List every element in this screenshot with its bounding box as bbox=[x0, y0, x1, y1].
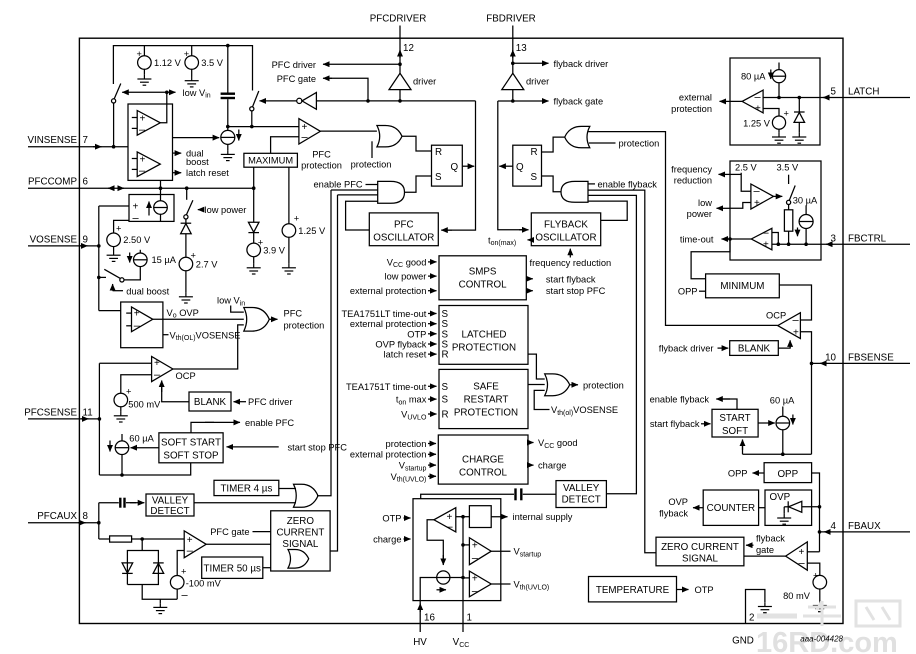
svg-text:CURRENT: CURRENT bbox=[276, 527, 324, 538]
svg-text:–: – bbox=[154, 369, 161, 381]
svg-text:driver: driver bbox=[526, 77, 549, 87]
wire latched out to G7 bbox=[528, 354, 545, 379]
VALLEY DETECT box (right) bbox=[556, 481, 606, 508]
current source I5 (charge) bbox=[437, 571, 450, 584]
svg-text:–: – bbox=[472, 553, 479, 565]
wire comp output to low Vin bbox=[160, 92, 167, 123]
svg-text:1.25 V: 1.25 V bbox=[743, 118, 771, 128]
svg-text:1.12 V: 1.12 V bbox=[154, 58, 182, 68]
svg-text:PFC: PFC bbox=[284, 308, 303, 318]
wire frequency reduction arrow bbox=[569, 249, 571, 258]
zener diode D5 bbox=[798, 98, 800, 113]
svg-text:13: 13 bbox=[516, 43, 527, 54]
svg-text:PFCSENSE: PFCSENSE bbox=[24, 407, 77, 418]
svg-text:Q: Q bbox=[516, 162, 524, 173]
svg-text:TEA1751LT time-out: TEA1751LT time-out bbox=[341, 309, 426, 319]
ground under V5 bbox=[247, 264, 261, 274]
diode D6 (OVP) bbox=[784, 506, 788, 508]
wire driver output row bbox=[399, 90, 401, 101]
wire low power in bbox=[428, 275, 437, 277]
inverter A2 bbox=[297, 98, 302, 103]
ZERO CURRENT SIGNAL box (left) bbox=[271, 511, 330, 571]
svg-text:start flyback: start flyback bbox=[650, 419, 700, 429]
wire OVP flyback out bbox=[693, 507, 703, 509]
svg-text:60 µA: 60 µA bbox=[129, 434, 154, 444]
svg-text:60 µA: 60 µA bbox=[770, 395, 795, 405]
wire G7 out bbox=[570, 384, 578, 386]
svg-text:protection: protection bbox=[301, 160, 342, 170]
svg-text:15 µA: 15 µA bbox=[152, 255, 177, 265]
svg-text:+: + bbox=[134, 309, 140, 320]
switch S1 (VINSENSE) bbox=[114, 84, 121, 99]
wire OVP to COUNTER bbox=[759, 507, 765, 509]
svg-text:frequency: frequency bbox=[671, 165, 712, 175]
node low Vin tap bbox=[165, 91, 169, 95]
current source I4 60uA bbox=[121, 434, 123, 441]
ground under V9 bbox=[772, 133, 786, 143]
top supply rail wire bbox=[113, 46, 252, 91]
svg-text:PROTECTION: PROTECTION bbox=[454, 408, 518, 419]
svg-text:+: + bbox=[116, 224, 121, 234]
FBCTRL block box bbox=[730, 161, 821, 260]
wire FF2 Q out bbox=[499, 165, 513, 167]
wire flyback gate label bbox=[513, 100, 549, 102]
wire flyback driver label bbox=[513, 62, 549, 64]
wire VCC good out bbox=[528, 442, 534, 444]
svg-text:protection: protection bbox=[583, 380, 624, 390]
wire G4 input from valley detect right bbox=[588, 195, 636, 493]
svg-text:latch reset: latch reset bbox=[384, 350, 427, 360]
ground under V2 bbox=[185, 77, 199, 87]
comparator U12 (time-out, points left) bbox=[751, 228, 772, 250]
comparator U3 (PFC protection) bbox=[299, 119, 321, 144]
svg-text:low: low bbox=[698, 198, 712, 208]
svg-text:-100 mV: -100 mV bbox=[186, 578, 222, 588]
wire time-out out bbox=[722, 238, 752, 240]
svg-text:OVP: OVP bbox=[770, 492, 791, 503]
wire start flyback out bbox=[526, 278, 533, 280]
wire OTP out bbox=[677, 589, 689, 591]
wire U7 plus to internal supply box bbox=[456, 516, 470, 518]
wire timer4 to OR6 bbox=[279, 488, 296, 490]
OR glyph inside ZCS left bbox=[288, 550, 309, 569]
watermark bottom right bbox=[757, 601, 900, 626]
svg-text:OPP: OPP bbox=[678, 287, 698, 297]
wire 2.5V stub bbox=[741, 173, 751, 191]
svg-text:flyback driver: flyback driver bbox=[659, 343, 714, 353]
svg-text:FLYBACK: FLYBACK bbox=[544, 219, 588, 230]
wire time-out tap to MINIMUM bbox=[691, 239, 730, 279]
switch S5 (3.5V / 30uA) bbox=[788, 175, 790, 184]
capacitor C1 bbox=[227, 46, 229, 93]
wire OCP to G3 input bbox=[588, 132, 778, 326]
svg-text:frequency reduction: frequency reduction bbox=[530, 258, 612, 268]
svg-text:S: S bbox=[435, 172, 442, 183]
wire frequency reduction out bbox=[730, 173, 741, 175]
svg-text:MINIMUM: MINIMUM bbox=[720, 281, 764, 292]
wire G4 input from ZCS right bbox=[588, 190, 656, 553]
svg-text:LATCH: LATCH bbox=[848, 87, 879, 98]
comparator U10 (latch, points left) bbox=[742, 90, 763, 113]
svg-text:TEMPERATURE: TEMPERATURE bbox=[596, 585, 670, 596]
svg-text:gate: gate bbox=[756, 545, 774, 555]
wire enable PFC stub bbox=[366, 184, 378, 186]
ground GND pin bbox=[758, 602, 772, 612]
svg-text:2.5 V: 2.5 V bbox=[735, 163, 758, 173]
current source I7 30uA bbox=[805, 205, 807, 214]
current source I6 80uA bbox=[778, 63, 780, 70]
comparator U6 (valley/ZCS) bbox=[184, 531, 206, 558]
voltage source V8 -100mV bbox=[170, 576, 184, 590]
svg-text:3: 3 bbox=[831, 233, 837, 244]
wire U1 box to PFCCOMP to error amp box bbox=[160, 180, 162, 200]
svg-text:flyback: flyback bbox=[756, 533, 785, 543]
wire G2 input from ZCS bbox=[338, 194, 378, 196]
wire PFC gate label to ZCS bbox=[253, 531, 271, 533]
svg-text:–: – bbox=[472, 586, 479, 598]
svg-text:+: + bbox=[784, 109, 789, 119]
wire U4 out to OR2 bbox=[153, 318, 244, 320]
wire soft start bottom rail bbox=[99, 463, 190, 475]
svg-text:enable PFC: enable PFC bbox=[245, 418, 294, 428]
svg-text:OCP: OCP bbox=[766, 311, 786, 321]
ground under V1 bbox=[137, 75, 151, 85]
wire U11 out to switch bbox=[774, 195, 783, 197]
svg-text:OTP: OTP bbox=[407, 329, 426, 339]
diode D1 bbox=[185, 219, 187, 223]
capacitor C3 (VCC/valley) bbox=[421, 494, 514, 499]
svg-text:SAFE: SAFE bbox=[473, 382, 499, 393]
svg-text:–: – bbox=[134, 320, 141, 332]
svg-text:SOFT STOP: SOFT STOP bbox=[163, 450, 219, 461]
svg-text:HV: HV bbox=[413, 637, 427, 648]
OPP box bbox=[764, 463, 812, 483]
pin 2 GND wire bbox=[746, 590, 765, 624]
wire G6 out up to G2 bbox=[317, 190, 331, 496]
svg-text:OPP: OPP bbox=[728, 469, 748, 479]
svg-text:BLANK: BLANK bbox=[738, 343, 771, 354]
TEMPERATURE box bbox=[589, 577, 677, 602]
current source I3 15uA bbox=[139, 250, 141, 253]
wire internal supply out bbox=[491, 516, 507, 518]
svg-text:protection: protection bbox=[671, 104, 712, 114]
wire U14 out to ZCS box bbox=[744, 555, 786, 557]
wire minus input to -100mV bbox=[177, 551, 184, 576]
ground under V10 bbox=[813, 601, 827, 611]
wire safe restart out to G7 bbox=[528, 384, 545, 386]
arrow down beside I1 bbox=[238, 130, 240, 141]
supply block box bbox=[413, 499, 501, 601]
svg-text:OSCILLATOR: OSCILLATOR bbox=[373, 232, 434, 243]
pin 9 VOSENSE wire bbox=[28, 245, 99, 247]
OR gate G1 (PFC R) bbox=[377, 125, 402, 146]
svg-text:S: S bbox=[531, 172, 538, 183]
wire comp box output to I1 bbox=[173, 137, 220, 139]
wire 500mV to U5 minus bbox=[121, 375, 152, 393]
wire U13 plus elbow bbox=[800, 332, 811, 455]
wire G3 out to R of FF2 bbox=[542, 137, 565, 152]
svg-text:FBAUX: FBAUX bbox=[848, 521, 881, 532]
wire B1 to U5 bbox=[162, 384, 189, 402]
wire OPP to FBAUX bus bbox=[812, 473, 820, 552]
wire G2 to S of FF1 bbox=[405, 176, 432, 192]
wire PFCAUX vertical bbox=[98, 503, 100, 539]
svg-text:CONTROL: CONTROL bbox=[459, 467, 507, 478]
svg-text:power: power bbox=[687, 209, 712, 219]
driver buffer A1 bbox=[389, 73, 411, 89]
wire bottom node bbox=[142, 585, 177, 600]
svg-text:8: 8 bbox=[83, 511, 89, 522]
svg-text:enable PFC: enable PFC bbox=[314, 180, 363, 190]
svg-text:500 mV: 500 mV bbox=[128, 399, 161, 409]
wire soft start rail bbox=[743, 453, 812, 455]
svg-text:CHARGE: CHARGE bbox=[462, 454, 504, 465]
svg-text:time-out: time-out bbox=[680, 234, 714, 244]
svg-text:FBCTRL: FBCTRL bbox=[848, 233, 887, 244]
capacitor C2 (PFCAUX) bbox=[99, 502, 119, 504]
wire U7 out to charge source bbox=[427, 520, 443, 564]
op-amp U1a bbox=[137, 111, 160, 136]
wire U9 out bbox=[491, 583, 510, 585]
arrow down beside I7 bbox=[797, 228, 799, 237]
svg-text:+: + bbox=[181, 567, 186, 577]
voltage source V5 3.9V bbox=[247, 243, 261, 257]
wire G2 input from PFC OSC bbox=[346, 201, 378, 230]
pin 16 HV wire bbox=[419, 601, 421, 632]
svg-text:+: + bbox=[133, 202, 139, 213]
wire latch reset out bbox=[173, 172, 182, 174]
svg-text:9: 9 bbox=[83, 234, 88, 245]
svg-text:–: – bbox=[447, 521, 454, 533]
pin 6 PFCCOMP wire bbox=[28, 187, 254, 189]
wire U3 out to OR1 bbox=[320, 130, 377, 132]
svg-text:R: R bbox=[442, 410, 449, 421]
svg-text:VALLEY: VALLEY bbox=[563, 483, 600, 494]
MINIMUM box bbox=[706, 274, 780, 298]
VALLEY DETECT box (left) bbox=[146, 494, 194, 516]
arrow down beside I6 bbox=[770, 70, 772, 80]
PFC OSCILLATOR box bbox=[369, 213, 438, 246]
ground under V8 node bbox=[159, 599, 161, 603]
svg-text:Q: Q bbox=[451, 162, 459, 173]
MAXIMUM box bbox=[244, 153, 298, 167]
internal supply square bbox=[469, 506, 491, 528]
resistor R1 bbox=[99, 538, 110, 540]
pin 8 PFCAUX wire bbox=[28, 522, 99, 524]
wire U14 plus to FBAUX bus bbox=[807, 551, 819, 553]
driver buffer A3 bbox=[502, 73, 524, 89]
wire U6 out to ZCS box bbox=[206, 543, 271, 545]
svg-text:start stop PFC: start stop PFC bbox=[288, 442, 348, 452]
wire I5 to VCC rail bbox=[450, 577, 463, 579]
svg-text:+: + bbox=[799, 547, 805, 558]
wire flyback gate label bbox=[746, 544, 754, 546]
flip-flop FF1 (PFC latch) bbox=[432, 145, 463, 186]
ground under V6 bbox=[282, 264, 296, 274]
switch S2 (PFC gate disable) bbox=[253, 91, 259, 107]
wire OTP in bbox=[404, 517, 411, 519]
svg-text:PFC gate: PFC gate bbox=[277, 74, 316, 84]
wire U14 minus to 80mV bbox=[807, 563, 820, 575]
current source I2 in U2 bbox=[154, 201, 168, 215]
svg-text:–: – bbox=[793, 314, 800, 326]
svg-text:3.5 V: 3.5 V bbox=[201, 58, 224, 68]
svg-text:SIGNAL: SIGNAL bbox=[282, 539, 318, 550]
voltage source V9 1.25V bbox=[772, 116, 785, 129]
wire safe restart inputs bbox=[428, 385, 437, 387]
svg-text:low power: low power bbox=[385, 272, 427, 282]
pin 5 LATCH wire bbox=[763, 97, 910, 99]
wire low Vin to OR2 bbox=[231, 306, 244, 313]
SOFT START SOFT STOP box bbox=[159, 433, 223, 463]
wire charge in bbox=[404, 538, 411, 540]
svg-text:TIMER 4 µs: TIMER 4 µs bbox=[220, 483, 272, 494]
arrow up in U2 bbox=[148, 202, 150, 216]
svg-text:VOSENSE: VOSENSE bbox=[30, 234, 78, 245]
svg-text:3.5 V: 3.5 V bbox=[777, 163, 800, 173]
pin 10 FBSENSE wire bbox=[812, 362, 911, 364]
voltage source V6 1.25V bbox=[282, 224, 296, 238]
svg-text:reduction: reduction bbox=[674, 176, 712, 186]
svg-text:protection: protection bbox=[619, 138, 660, 148]
ground under V3 bbox=[107, 251, 121, 261]
voltage source V4 2.7V bbox=[179, 257, 193, 271]
svg-text:ZERO CURRENT: ZERO CURRENT bbox=[661, 542, 739, 553]
diode D3 bbox=[122, 563, 133, 573]
SAFE RESTART PROTECTION box bbox=[439, 369, 528, 428]
wire U5 out to G5 bbox=[173, 325, 244, 369]
wire A3 output row bbox=[512, 90, 514, 101]
pin 11 PFCSENSE wire bbox=[28, 418, 99, 420]
wire ton(max) stub bbox=[528, 239, 532, 241]
svg-text:S: S bbox=[442, 382, 449, 393]
svg-text:11: 11 bbox=[83, 407, 93, 418]
svg-text:VINSENSE: VINSENSE bbox=[27, 135, 77, 146]
AND gate G4 (enable flyback) bbox=[561, 181, 588, 202]
arrow down beside I8 bbox=[792, 415, 794, 425]
svg-text:–: – bbox=[139, 124, 146, 136]
voltage source V2 3.5V bbox=[191, 46, 193, 56]
AND gate G2 (enable PFC) bbox=[378, 181, 405, 203]
svg-text:+: + bbox=[154, 358, 160, 369]
pin 13 FBDRIVER wire bbox=[512, 26, 514, 74]
TIMER 4us box bbox=[214, 480, 279, 495]
svg-text:+: + bbox=[294, 214, 299, 224]
OR gate G3 (flyback R) bbox=[565, 126, 590, 147]
svg-text:PFC driver: PFC driver bbox=[248, 397, 292, 407]
svg-text:1: 1 bbox=[467, 613, 472, 624]
svg-text:PFC: PFC bbox=[312, 149, 331, 159]
svg-text:external protection: external protection bbox=[350, 319, 427, 329]
wire PFC driver label bbox=[323, 63, 400, 65]
svg-text:80 µA: 80 µA bbox=[741, 72, 766, 82]
svg-text:6: 6 bbox=[83, 177, 89, 188]
wire enable flyback out bbox=[722, 399, 737, 409]
svg-text:10: 10 bbox=[825, 353, 836, 364]
svg-text:–: – bbox=[139, 165, 146, 177]
wire timer50 to ZCS bbox=[263, 567, 271, 569]
OR gate G5 (PFC protection out) bbox=[244, 307, 270, 331]
arrow right under I5 bbox=[437, 589, 447, 591]
svg-text:80 mV: 80 mV bbox=[783, 591, 811, 601]
voltage source V3 2.50V bbox=[107, 233, 121, 247]
svg-text:–: – bbox=[133, 213, 140, 225]
wire HV internal rail bbox=[420, 578, 437, 601]
svg-text:OVP flyback: OVP flyback bbox=[375, 340, 426, 350]
wire U2 plus input bbox=[99, 205, 129, 207]
comparator U9 (Vth UVLO) bbox=[469, 571, 491, 597]
svg-text:CONTROL: CONTROL bbox=[459, 279, 507, 290]
wire U3 minus to MAXIMUM bbox=[271, 137, 299, 154]
svg-text:7: 7 bbox=[83, 135, 88, 146]
voltage source V10 80mV bbox=[813, 575, 827, 589]
wire enable flyback stub bbox=[588, 183, 595, 185]
svg-text:FBSENSE: FBSENSE bbox=[848, 353, 894, 364]
svg-text:internal supply: internal supply bbox=[513, 512, 573, 522]
comparator U8 (Vstartup) bbox=[469, 538, 491, 565]
wire START SOFT to I8 bbox=[758, 422, 775, 424]
svg-text:2.7 V: 2.7 V bbox=[196, 260, 219, 270]
wire FF1 Q out bbox=[462, 165, 474, 167]
svg-text:+: + bbox=[813, 571, 818, 581]
wire MINIMUM out to OCP minus bbox=[779, 285, 811, 320]
wire SOFT box to I4 bbox=[131, 447, 159, 449]
wire flyback gate bus bbox=[498, 101, 527, 230]
svg-text:start stop PFC: start stop PFC bbox=[546, 286, 606, 296]
svg-text:PFC driver: PFC driver bbox=[272, 60, 316, 70]
svg-text:PFCDRIVER: PFCDRIVER bbox=[370, 14, 427, 25]
svg-text:DETECT: DETECT bbox=[150, 506, 189, 517]
svg-text:DETECT: DETECT bbox=[562, 494, 601, 505]
svg-text:external protection: external protection bbox=[350, 286, 427, 296]
svg-text:OCP: OCP bbox=[176, 371, 196, 381]
wire valley out to OR6 bbox=[194, 502, 296, 504]
dual boost label arrow bbox=[112, 284, 114, 291]
comparator U14 (flyback ZCS, points left) bbox=[786, 542, 808, 570]
OR gate G6 (valley or) bbox=[294, 484, 319, 507]
svg-text:VALLEY: VALLEY bbox=[152, 496, 189, 507]
svg-text:TIMER 50 µs: TIMER 50 µs bbox=[204, 563, 261, 574]
svg-text:enable flyback: enable flyback bbox=[598, 179, 658, 189]
wire low power out bbox=[730, 203, 751, 209]
wire U12 minus elbow bbox=[772, 233, 778, 245]
CHARGE CONTROL box bbox=[438, 435, 528, 484]
wire Vth(ol)VOSENSE to G7 bbox=[534, 390, 549, 409]
BLANK box B2 bbox=[730, 341, 779, 356]
wire charge out bbox=[528, 464, 534, 466]
wire inverter to switch S2 bbox=[260, 100, 297, 102]
arrow down beside I3 bbox=[129, 253, 131, 263]
wire start flyback in bbox=[701, 423, 711, 425]
comparator U7 (startup, points left) bbox=[434, 508, 456, 532]
BLANK box B1 bbox=[189, 392, 231, 411]
svg-text:GND: GND bbox=[732, 636, 754, 647]
wire PFC gate label bbox=[326, 78, 368, 101]
svg-text:OTP: OTP bbox=[382, 514, 401, 524]
comparator U13 (OCP, points left) bbox=[778, 313, 801, 339]
svg-text:SOFT: SOFT bbox=[722, 426, 748, 437]
error amp box U2 (VOSENSE) bbox=[129, 195, 174, 222]
svg-text:TEA1751T time-out: TEA1751T time-out bbox=[346, 382, 427, 392]
svg-text:PFCCOMP: PFCCOMP bbox=[28, 177, 77, 188]
pin 12 PFCDRIVER wire bbox=[399, 26, 401, 74]
svg-text:–: – bbox=[755, 92, 762, 104]
wire Vth(OL)VOSENSE stub bbox=[163, 334, 169, 336]
svg-text:+: + bbox=[763, 240, 769, 251]
wire ZCS out up to G2 bbox=[330, 195, 337, 551]
wire G2 input from valley OR bbox=[331, 189, 378, 191]
svg-text:+: + bbox=[472, 574, 478, 585]
